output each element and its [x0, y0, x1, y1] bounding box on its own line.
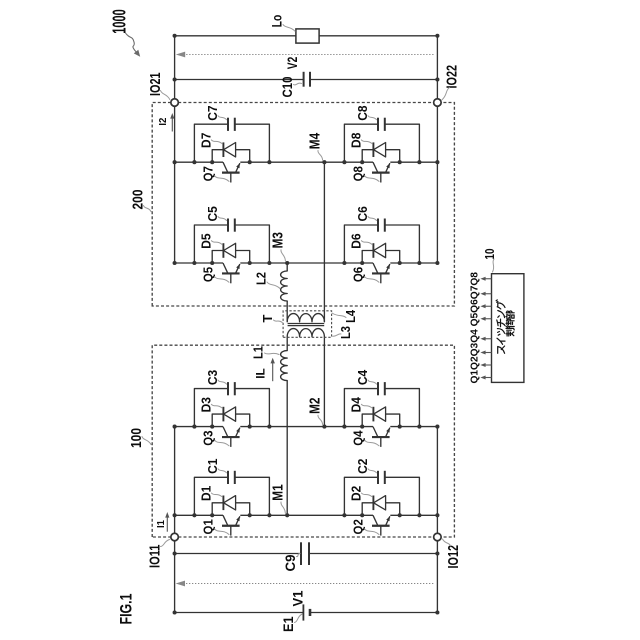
transformer T winding L3	[287, 329, 324, 337]
inductor L2	[281, 271, 288, 301]
diode D6	[362, 251, 400, 264]
svg-text:L2: L2	[254, 272, 269, 285]
svg-text:M1: M1	[270, 484, 286, 500]
control unit text switching	[498, 346, 505, 353]
dashed box bridge 100	[152, 345, 454, 537]
capacitor C10	[175, 79, 304, 81]
transistor Q6 (IGBT)	[372, 272, 390, 274]
transformer T winding L4	[287, 314, 324, 322]
svg-text:C1: C1	[205, 459, 220, 474]
control unit box 10	[492, 274, 524, 383]
wire bridge100 bottom rail	[436, 427, 438, 534]
svg-text:Q2: Q2	[351, 519, 366, 534]
wire output top	[174, 36, 176, 99]
junction dots	[342, 261, 346, 265]
node M2	[322, 425, 326, 429]
svg-text:L1: L1	[251, 346, 266, 359]
junction dots	[192, 261, 196, 265]
gate signal arrows	[484, 377, 491, 379]
svg-text:C9: C9	[283, 555, 298, 572]
wire leg Q5/Q6	[175, 262, 223, 264]
wire input bottom	[436, 541, 438, 613]
control unit text control-part	[506, 328, 514, 336]
wire bridge100 top rail	[174, 427, 176, 534]
junction dots	[342, 160, 346, 164]
terminal IO12	[434, 533, 442, 541]
svg-text:E1: E1	[281, 616, 296, 632]
capacitor C2	[344, 477, 419, 515]
transistor Q1 (IGBT)	[222, 525, 240, 527]
svg-text:1000: 1000	[110, 9, 130, 34]
svg-text:Q4: Q4	[351, 430, 366, 446]
svg-text:T: T	[260, 314, 275, 322]
svg-text:IO22: IO22	[443, 65, 460, 89]
junction dots	[192, 513, 196, 517]
wire leg Q7/Q8	[175, 161, 223, 163]
svg-text:L4: L4	[343, 309, 358, 323]
capacitor C7	[194, 124, 269, 162]
svg-text:IL: IL	[254, 368, 268, 379]
svg-text:C5: C5	[205, 206, 220, 221]
current arrow I2	[171, 118, 173, 131]
leader arrow for 1000	[126, 33, 137, 52]
diode D4	[362, 414, 400, 427]
diode D1	[212, 503, 250, 516]
wire M1 to L1	[286, 381, 288, 516]
capacitor C8	[344, 124, 419, 162]
capacitor C6	[344, 225, 419, 263]
svg-text:M3: M3	[270, 232, 286, 248]
svg-text:Q3: Q3	[201, 430, 216, 445]
capacitor C9	[175, 553, 301, 555]
svg-text:L3: L3	[338, 326, 353, 339]
wire output bottom	[436, 36, 438, 99]
junction dots	[342, 513, 346, 517]
node M1	[285, 513, 289, 517]
voltage arrow V2 (dashed)	[180, 54, 434, 56]
junction dots	[342, 425, 346, 429]
wire leg Q3/Q4	[175, 426, 223, 428]
wire leg Q1/Q2	[175, 514, 223, 516]
svg-text:V2: V2	[285, 57, 300, 70]
diode D8	[362, 150, 400, 163]
terminal IO11	[171, 533, 179, 541]
svg-text:Q8: Q8	[351, 166, 366, 181]
junction dots	[192, 160, 196, 164]
wire M2 to L3	[323, 337, 325, 427]
capacitor C3	[194, 389, 269, 427]
wire L4 to L2	[286, 301, 288, 322]
svg-text:10: 10	[482, 249, 497, 260]
wire bridge200 top rail	[174, 106, 176, 263]
transistor Q5 (IGBT)	[222, 272, 240, 274]
transformer core	[288, 325, 325, 327]
diode D5	[212, 251, 250, 264]
battery E1	[175, 612, 304, 614]
current arrow I1	[166, 517, 168, 532]
svg-text:C2: C2	[355, 459, 370, 474]
transistor Q3 (IGBT)	[222, 436, 240, 438]
wire L2 to M3	[286, 263, 288, 271]
diode D2	[362, 503, 400, 516]
voltage arrow V1 (dashed)	[180, 583, 434, 585]
inductor L1	[281, 351, 288, 381]
diode D3	[212, 414, 250, 427]
svg-text:C10: C10	[280, 77, 295, 98]
svg-text:M2: M2	[307, 398, 323, 414]
node M4	[322, 160, 326, 164]
load Lo	[175, 35, 296, 37]
svg-text:C7: C7	[205, 105, 220, 120]
svg-text:Q1Q2Q3Q4 Q5Q6Q7Q8: Q1Q2Q3Q4 Q5Q6Q7Q8	[469, 272, 480, 384]
wire L4 to M4	[323, 162, 325, 322]
svg-text:IO12: IO12	[445, 545, 462, 569]
transistor Q8 (IGBT)	[372, 172, 390, 174]
svg-text:M4: M4	[307, 133, 323, 149]
terminal IO21	[171, 99, 179, 107]
current arrow IL	[272, 363, 274, 381]
wire L1 to transformer	[286, 337, 288, 351]
svg-text:C8: C8	[355, 105, 370, 120]
wire bridge200 bottom rail	[436, 106, 438, 263]
svg-text:Q7: Q7	[201, 166, 216, 181]
capacitor C1	[194, 477, 269, 515]
transistor Q4 (IGBT)	[372, 436, 390, 438]
capacitor C5	[194, 225, 269, 263]
transformer coupling box (dashed)	[283, 311, 332, 338]
wire input top	[174, 541, 176, 613]
svg-text:C3: C3	[205, 370, 220, 385]
diode D7	[212, 150, 250, 163]
dashed box bridge 200	[152, 103, 454, 307]
svg-text:I2: I2	[157, 117, 169, 125]
svg-text:Q6: Q6	[351, 267, 366, 282]
capacitor C4	[344, 389, 419, 427]
transistor Q2 (IGBT)	[372, 525, 390, 527]
junction dots	[192, 425, 196, 429]
node M3	[285, 261, 289, 265]
svg-text:Q1: Q1	[201, 519, 216, 534]
svg-text:FIG.1: FIG.1	[118, 594, 136, 625]
svg-text:V1: V1	[291, 590, 306, 606]
svg-text:IO11: IO11	[146, 545, 163, 569]
terminal IO22	[434, 99, 442, 107]
transistor Q7 (IGBT)	[222, 172, 240, 174]
svg-text:I1: I1	[155, 520, 167, 528]
svg-text:C4: C4	[355, 369, 370, 385]
svg-text:Q5: Q5	[201, 267, 216, 282]
svg-text:C6: C6	[355, 206, 370, 221]
svg-text:Lo: Lo	[270, 15, 285, 28]
